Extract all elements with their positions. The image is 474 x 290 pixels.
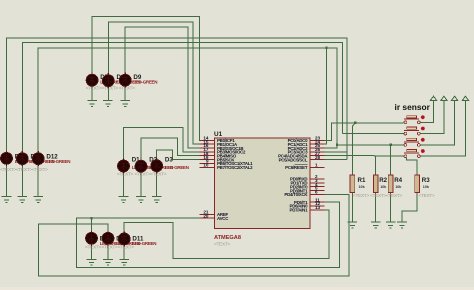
svg-text:20: 20 xyxy=(203,213,209,218)
wire LED D1 to PB3 pin17 xyxy=(124,128,200,161)
svg-text:R4: R4 xyxy=(394,177,402,184)
wire R2 to ground xyxy=(375,193,377,222)
LED indicator dot S2 xyxy=(421,127,425,131)
LED D8 xyxy=(102,73,114,88)
svg-text:<TEXT>: <TEXT> xyxy=(102,245,119,251)
ir sensor S4 xyxy=(404,150,420,158)
resistor R4 body xyxy=(388,175,393,193)
ground GND D11-2 xyxy=(103,259,113,265)
pin 12 PD6/AIN0 xyxy=(290,201,325,209)
power VCC arrow VCC4 xyxy=(462,96,468,100)
wire sensor2 to VCC xyxy=(420,100,444,133)
ir sensor S3 xyxy=(404,138,420,146)
ground GND D12 xyxy=(33,197,43,203)
svg-text:<TEXT>: <TEXT> xyxy=(0,167,17,173)
ground GND D7 xyxy=(87,101,97,107)
pin 24 PC1/ADC1 xyxy=(288,139,325,147)
ground GND D11 xyxy=(18,197,28,203)
wire D11 top rail to sensor row2 xyxy=(22,43,342,153)
ir sensor S1 xyxy=(404,116,420,124)
node junction AVCC rail / D11-1 xyxy=(90,217,92,219)
wire R1 to ground xyxy=(351,193,353,222)
pin 10 PB7/TOSC2/XTAL2 xyxy=(200,163,254,171)
wire sensor row3 xyxy=(337,144,404,146)
wire R2 riser xyxy=(375,156,377,175)
pin 28 PC5/ADC5/SCL xyxy=(279,155,325,163)
svg-text:<TEXT>: <TEXT> xyxy=(32,167,49,173)
pin 5 PD3/INT1 xyxy=(290,186,324,194)
pin 19 PB5/SCK xyxy=(200,155,236,163)
svg-text:6: 6 xyxy=(315,190,318,195)
LED indicator dot S1 xyxy=(421,115,425,119)
svg-text:LED-GREEN: LED-GREEN xyxy=(132,241,156,246)
pin 6 PD4/T0/XCK xyxy=(284,190,324,198)
svg-text:PC6/RESET: PC6/RESET xyxy=(285,165,308,170)
node junction row3 xyxy=(336,144,338,146)
pin 1 PC6/RESET xyxy=(285,163,324,171)
svg-text:<TEXT>: <TEXT> xyxy=(86,86,103,92)
pin 11 PD5/T1 xyxy=(294,197,325,205)
svg-text:<TEXT>: <TEXT> xyxy=(353,193,370,199)
svg-text:<TEXT>: <TEXT> xyxy=(150,172,167,178)
wire sensor3 to VCC xyxy=(420,100,454,144)
wire D11-3 cathode stem xyxy=(123,244,125,259)
svg-text:10k: 10k xyxy=(395,185,402,189)
LED D11a xyxy=(86,231,98,246)
wire LED D3 cathode stem xyxy=(156,172,158,197)
ir sensor S2 xyxy=(404,127,420,135)
ground GND D1 xyxy=(119,197,129,203)
ground GND D11-3 xyxy=(119,259,129,265)
power VCC arrow VCC3 xyxy=(452,96,458,100)
svg-text:<TEXT>: <TEXT> xyxy=(386,193,403,199)
svg-text:10k: 10k xyxy=(380,185,387,189)
ground GND D9 xyxy=(120,101,130,107)
wire D9 cathode stem xyxy=(124,86,126,101)
pin 13 PD7/AIN1 xyxy=(290,205,325,213)
ground GND D11-1 xyxy=(87,259,97,265)
resistor R2 body xyxy=(373,175,378,193)
svg-text:U1: U1 xyxy=(214,131,223,138)
LED D12 xyxy=(32,151,44,166)
resistor R3 body xyxy=(415,175,420,193)
svg-text:10k: 10k xyxy=(423,185,430,189)
svg-text:<TEXT>: <TEXT> xyxy=(117,172,134,178)
wire D10 cathode stem xyxy=(6,164,8,196)
svg-text:R1: R1 xyxy=(358,177,366,184)
LED indicator dot S3 xyxy=(421,138,425,142)
wire sensor4 to R3 riser xyxy=(406,158,417,175)
svg-text:1: 1 xyxy=(315,163,318,168)
wire LED D1 cathode stem xyxy=(123,172,125,197)
wire sensor row2 xyxy=(342,133,403,135)
ground GND R3 xyxy=(397,222,407,228)
svg-text:PD4/T0/XCK: PD4/T0/XCK xyxy=(284,192,308,197)
wire D11 cathode stem xyxy=(21,164,23,196)
svg-text:LED-GREEN: LED-GREEN xyxy=(46,159,70,164)
power VCC arrow VCC2 xyxy=(441,96,447,100)
wire PC3 pin26 hook xyxy=(325,151,348,153)
ground GND D2 xyxy=(136,197,146,203)
svg-text:ATMEGA8: ATMEGA8 xyxy=(214,235,241,241)
svg-text:R3: R3 xyxy=(422,177,430,184)
ground GND D3 xyxy=(152,197,162,203)
wire PC1 riser xyxy=(325,48,327,144)
svg-text:ir sensor: ir sensor xyxy=(395,102,431,112)
pin 9 PB6/TOSC1/XTAL1 xyxy=(200,159,254,167)
LED D1 xyxy=(118,159,130,174)
node junction top rail / PC1 riser xyxy=(325,47,327,49)
svg-text:28: 28 xyxy=(315,155,321,160)
wire D9 anode to PB2 pin16 xyxy=(125,27,200,148)
LED D11b xyxy=(102,231,114,246)
pin 18 PB4/MISO xyxy=(200,151,237,159)
pin 20 AVCC xyxy=(200,213,230,221)
pin 2 PD0/RXD xyxy=(290,174,324,182)
wire sensor1 to VCC xyxy=(420,100,433,122)
svg-text:LED-GREEN: LED-GREEN xyxy=(165,165,189,170)
LED indicator dot S4 xyxy=(421,149,425,153)
svg-text:<TEXT>: <TEXT> xyxy=(16,167,33,173)
LED D3 xyxy=(151,158,163,173)
power VCC arrow VCC1 xyxy=(430,96,436,100)
wire LED D2 cathode stem xyxy=(140,172,142,197)
wire PC5 pin28 hook xyxy=(325,159,348,161)
wire R3 to ground xyxy=(402,193,417,222)
pin 23 PC0/ADC0 xyxy=(288,136,325,144)
svg-text:PC5/ADC5/SCL: PC5/ADC5/SCL xyxy=(279,157,308,162)
pin 17 PB3/MOSI/OC2 xyxy=(200,147,246,155)
svg-text:AVCC: AVCC xyxy=(217,216,229,221)
svg-text:PB7/TOSC2/XTAL2: PB7/TOSC2/XTAL2 xyxy=(217,165,253,170)
wire D12 cathode stem xyxy=(37,164,39,196)
LED D7 xyxy=(86,73,98,88)
ground GND D8 xyxy=(103,101,113,107)
LED D11c xyxy=(118,231,130,246)
wire LED D11-3 rail A to PD7 pin13 xyxy=(124,210,329,259)
resistor R1 body xyxy=(350,175,355,193)
wire R4 riser to row3 xyxy=(390,145,392,175)
pin 27 PC4/ADC4/SDA xyxy=(278,151,324,159)
wire PC4 to sensor row4 xyxy=(325,155,404,158)
svg-text:D3: D3 xyxy=(165,156,173,163)
wire PC0 to sensor row1 xyxy=(325,123,404,141)
wire LED D3 to PB5 pin19 xyxy=(157,150,200,160)
pin 14 PB0/ICP1 xyxy=(200,136,236,144)
wire D7 anode to PB0 pin14 xyxy=(92,16,200,140)
LED D10 xyxy=(1,151,13,166)
pin 15 PB1/OC1A xyxy=(200,139,238,147)
svg-text:R2: R2 xyxy=(379,177,387,184)
node junction row3 / R4 xyxy=(389,144,391,146)
svg-text:<TEXT>: <TEXT> xyxy=(118,245,135,251)
pin 25 PC2/ADC2 xyxy=(288,143,325,151)
wire D8 anode to PB1 pin15 xyxy=(108,22,200,144)
pin 4 PD2/INT0 xyxy=(290,182,324,190)
ground GND R1 xyxy=(348,222,358,228)
svg-text:13: 13 xyxy=(315,205,321,210)
pin 3 PD1/TXD xyxy=(291,178,325,186)
ground GND R4 xyxy=(386,222,396,228)
wire LED D11-2 rail C to PD4 pin6 xyxy=(39,194,349,276)
LED D11 xyxy=(16,151,28,166)
pin 21 AREF xyxy=(200,210,229,218)
svg-text:10k: 10k xyxy=(359,185,366,189)
wire D12 top rail to PC2 pin25 xyxy=(38,48,337,153)
pin 26 PC3/ADC3 xyxy=(288,147,325,155)
pin 16 PB2/SS/OC1B xyxy=(200,143,244,151)
ground GND D10 xyxy=(2,197,12,203)
wire AVCC rail B to PD5 pin11 xyxy=(76,202,339,268)
op-amp U1 ATMEGA8 chip body xyxy=(214,138,309,229)
wire D11-2 cathode stem xyxy=(107,244,109,259)
LED D9 xyxy=(119,73,131,88)
wire LED D2 to PB4 pin18 xyxy=(141,138,200,160)
svg-text:<TEXT>: <TEXT> xyxy=(370,193,387,199)
svg-text:10: 10 xyxy=(203,163,209,168)
svg-text:<TEXT>: <TEXT> xyxy=(419,193,436,199)
wire LED D11-1 riser xyxy=(91,218,93,232)
ground GND R2 xyxy=(371,222,381,228)
wire D7 cathode stem xyxy=(91,86,93,101)
svg-text:<TEXT>: <TEXT> xyxy=(135,172,152,178)
svg-text:<TEXT>: <TEXT> xyxy=(214,241,231,247)
wire D10 top rail down right column xyxy=(7,38,348,160)
wire D8 cathode stem xyxy=(107,86,109,100)
wire D11-1 cathode stem xyxy=(91,244,93,259)
node junction row1 / R1 xyxy=(354,122,356,124)
svg-text:<TEXT>: <TEXT> xyxy=(85,245,102,251)
svg-text:LED-GREEN: LED-GREEN xyxy=(133,80,157,85)
svg-text:PD7/AIN1: PD7/AIN1 xyxy=(290,208,309,213)
svg-text:<TEXT>: <TEXT> xyxy=(119,86,136,92)
wire R4 to ground xyxy=(390,193,392,222)
LED D2 xyxy=(135,159,147,174)
wire R1 riser to row1 xyxy=(352,123,355,175)
wire sensor4 to VCC xyxy=(420,100,465,156)
